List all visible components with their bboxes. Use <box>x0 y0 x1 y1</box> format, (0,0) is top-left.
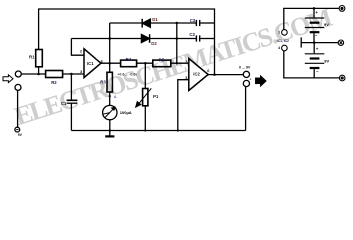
svg-text:0 ... 9V: 0 ... 9V <box>239 66 251 70</box>
label R4 <box>126 57 132 62</box>
wire D1 rail <box>110 22 197 24</box>
svg-text:C2: C2 <box>189 32 195 37</box>
terminal battery mid <box>338 40 343 45</box>
node dot meter ground <box>109 129 111 131</box>
svg-text:R4: R4 <box>126 57 132 62</box>
label IC2 <box>193 72 200 77</box>
label D2 <box>151 41 157 46</box>
wire IC2 pin3 ground drop <box>178 80 189 131</box>
wire IC1 pin2 feedback <box>71 39 84 56</box>
pin 2 IC1 <box>80 49 83 54</box>
svg-text:IC1: IC1 <box>87 61 94 66</box>
battery B2 9V <box>305 43 325 78</box>
svg-text:R2: R2 <box>51 80 57 85</box>
ground <box>105 131 114 137</box>
resistor R3 <box>107 72 112 105</box>
node dot C1 input <box>70 73 73 76</box>
wire supply pin7 <box>284 8 339 29</box>
svg-text:+: + <box>316 46 319 51</box>
op-amp IC2 <box>189 59 208 91</box>
svg-text:C3: C3 <box>190 18 196 23</box>
pin 7 supply <box>278 31 280 35</box>
label 100uA <box>120 110 132 115</box>
svg-text:9V: 9V <box>324 59 329 64</box>
wire top rail <box>39 9 215 75</box>
input terminal upper <box>15 71 21 77</box>
label battery1 plus <box>315 10 318 15</box>
wire lower terminal drop <box>17 90 19 127</box>
battery B1 9V <box>305 8 325 42</box>
svg-text:7: 7 <box>278 31 280 35</box>
svg-text:+0.6 ... -0.6v: +0.6 ... -0.6v <box>118 72 138 76</box>
label IC1 IC2 supply <box>277 39 289 43</box>
node dot P1 top <box>144 62 147 64</box>
wire capacitor tap vertical <box>176 23 178 63</box>
label 9V input <box>18 133 23 137</box>
pin 2 IC2 <box>185 59 188 64</box>
svg-text:D1: D1 <box>152 17 158 22</box>
meter M1 100uA <box>103 105 117 130</box>
diode D2 <box>141 34 149 43</box>
svg-text:R3: R3 <box>100 79 106 84</box>
potentiometer P1 <box>136 63 151 130</box>
pin 6 IC2 <box>207 68 210 73</box>
node dot R1 input <box>37 73 40 76</box>
pin 6 IC1 <box>101 58 104 63</box>
output arrow <box>256 76 266 86</box>
capacitor C2 <box>196 35 214 41</box>
wire supply pin4 <box>284 51 340 78</box>
svg-text:R5: R5 <box>159 57 165 62</box>
svg-text:IC2: IC2 <box>193 72 200 77</box>
terminal battery top <box>339 5 345 11</box>
resistor R2 <box>46 71 63 78</box>
output terminal lower <box>243 80 249 130</box>
resistor R1 <box>36 50 43 75</box>
input terminal lower <box>15 84 21 90</box>
label P1 <box>153 94 159 99</box>
capacitor C1 <box>67 100 78 103</box>
node dot tap D1 rail <box>176 22 179 25</box>
svg-text:–: – <box>315 33 318 38</box>
wire IC2 output <box>208 74 243 76</box>
label output voltage <box>239 66 251 70</box>
wire bottom rail <box>71 130 245 132</box>
label R5 <box>159 57 165 62</box>
svg-text:100µA: 100µA <box>120 110 132 115</box>
terminal pin7 <box>282 30 288 36</box>
svg-text:+: + <box>315 10 318 15</box>
svg-text:A: A <box>114 94 117 99</box>
node dot tap output <box>176 62 179 64</box>
label C1 <box>61 101 67 106</box>
svg-text:–: – <box>316 69 319 74</box>
node dot battery top <box>313 7 316 10</box>
wire IC1 output run <box>101 62 189 64</box>
resistor R4 <box>121 60 137 67</box>
wire output node vertical <box>109 23 111 72</box>
svg-text:IC1, IC2: IC1, IC2 <box>277 39 289 43</box>
label limiter voltage <box>118 72 138 76</box>
label battery1 minus <box>315 33 318 38</box>
label C3 <box>190 18 196 23</box>
node dot IC2 output <box>213 73 216 76</box>
wire input net <box>21 73 84 75</box>
node dot IC1 output <box>108 62 111 64</box>
output terminal upper <box>243 71 249 77</box>
svg-text:D2: D2 <box>151 41 157 46</box>
label R3 <box>100 79 106 84</box>
node dot battery mid <box>313 41 316 44</box>
input arrow <box>3 75 13 83</box>
terminal pin4 <box>282 45 288 51</box>
svg-text:C1: C1 <box>61 101 67 106</box>
label battery1 9V <box>324 22 329 27</box>
battery minus terminal <box>15 127 20 132</box>
terminal battery bottom <box>339 75 345 81</box>
label R2 <box>51 80 57 85</box>
wire supply mid rail <box>301 37 338 47</box>
svg-text:9V: 9V <box>18 133 23 137</box>
label C2 <box>189 32 195 37</box>
label battery2 9V <box>324 59 329 64</box>
svg-text:9V: 9V <box>324 22 329 27</box>
node dot pin3 ground <box>177 129 179 131</box>
pin 4 supply <box>278 46 281 50</box>
label battery2 plus <box>316 46 319 51</box>
resistor R5 <box>153 60 171 67</box>
capacitor C3 <box>196 20 214 26</box>
label R1 <box>29 55 35 60</box>
wire D2 rail <box>71 38 196 40</box>
node dot P1 ground <box>144 129 146 131</box>
node dot D2 rail <box>108 37 111 40</box>
node A <box>109 94 117 99</box>
label output s <box>250 77 252 81</box>
svg-text:R1: R1 <box>29 55 35 60</box>
op-amp IC1 <box>84 49 101 78</box>
svg-text:P1: P1 <box>153 94 159 99</box>
wire C1 branch <box>70 74 72 131</box>
pin 3 IC1 <box>80 69 83 74</box>
pin 3 IC2 <box>185 75 188 80</box>
label IC1 <box>87 61 94 66</box>
label battery2 minus <box>316 69 319 74</box>
node dot tap D2 rail <box>176 37 179 40</box>
diode D1 <box>142 19 150 28</box>
label D1 <box>152 17 158 22</box>
